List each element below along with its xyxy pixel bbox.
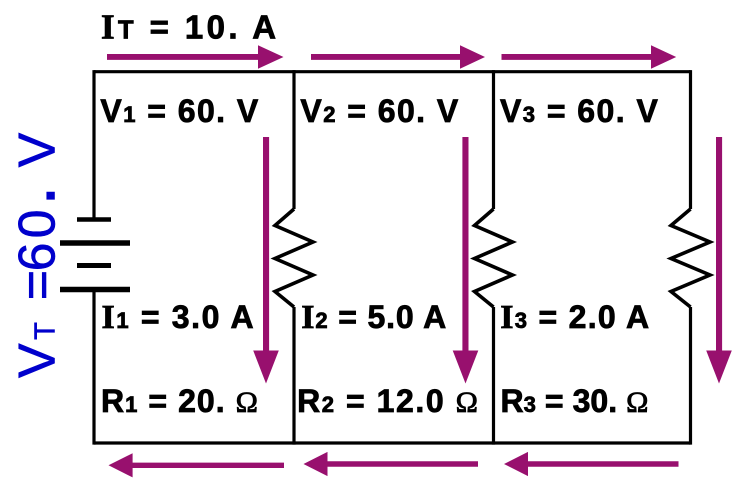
wire bottom conductor: [94, 441, 691, 444]
battery VT plate 4 (long, bottom): [60, 287, 130, 293]
current arrow down branch 1 (I1): [253, 137, 279, 384]
current arrow down branch 2 (I2): [453, 137, 479, 384]
svg-text:R1 = 20. Ω: R1 = 20. Ω: [101, 383, 259, 419]
wire right rail upper segment: [689, 70, 692, 209]
current arrow bottom return branch 1: [109, 453, 285, 477]
wire branch 1 upper segment: [292, 70, 295, 209]
current arrow bottom return branch 2: [304, 452, 479, 476]
battery VT plate 2 (long): [60, 240, 130, 246]
battery VT plate 3 (short): [77, 263, 111, 268]
current arrow top branch 2: [311, 45, 485, 69]
wire branch 2 lower segment: [492, 307, 495, 445]
current arrow bottom return branch 3: [504, 452, 679, 476]
resistor R1 zigzag: [275, 209, 313, 307]
battery VT plate 1 (short, top): [77, 217, 111, 222]
wire right rail lower segment: [689, 307, 692, 445]
wire branch 1 lower segment: [292, 307, 295, 445]
wire left rail upper segment: [92, 70, 95, 217]
resistor R2 zigzag: [475, 209, 513, 307]
resistor R3 zigzag: [671, 209, 710, 307]
wire left rail lower segment: [92, 290, 95, 445]
svg-text:R3 = 30. Ω: R3 = 30. Ω: [501, 383, 649, 419]
current arrow top branch 3: [502, 45, 677, 69]
wire top conductor: [94, 70, 691, 73]
wire branch 2 upper segment: [492, 70, 495, 209]
current arrow top branch 1 (IT): [107, 45, 284, 69]
current arrow down branch 3 (I3): [706, 137, 732, 384]
